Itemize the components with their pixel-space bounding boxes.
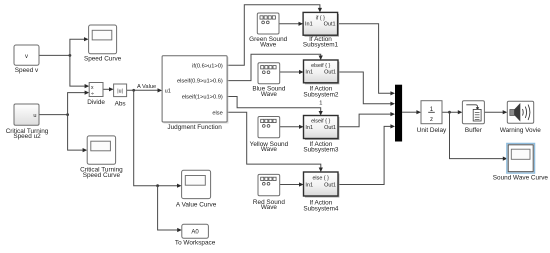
wire Blue Sound Wave to Subsystem2 In1 (280, 70, 304, 74)
block If Action Subsystem1 (303, 12, 339, 48)
svg-text:÷: ÷ (91, 92, 94, 98)
block Critical Turning Speed u2 (subsystem source) (6, 104, 49, 140)
svg-text:Wave: Wave (261, 146, 278, 153)
svg-text:Unit Delay: Unit Delay (417, 127, 447, 134)
wire Divide to Abs (103, 87, 114, 91)
block If Action Subsystem2 (303, 60, 339, 98)
svg-text:Out1: Out1 (324, 125, 336, 131)
svg-text:Speed Curve: Speed Curve (84, 55, 122, 62)
svg-text:else: else (212, 110, 222, 116)
wire junction down to Divide input x (70, 55, 89, 88)
svg-text:u: u (33, 113, 36, 119)
wire Green Sound Wave to Subsystem1 In1 (279, 22, 303, 26)
svg-text:Speed u2: Speed u2 (13, 133, 41, 140)
svg-text:Abs: Abs (115, 101, 126, 108)
svg-text:A Value Curve: A Value Curve (176, 202, 217, 209)
wire junction down to Critical Turning Speed Curve (68, 115, 88, 153)
wire Critical Turning Speed u2 to junction (39, 114, 68, 116)
block Mux (395, 85, 402, 142)
node junction unit delay out (448, 111, 451, 114)
svg-text:u1: u1 (165, 89, 171, 95)
svg-text:if { }: if { } (316, 15, 325, 21)
svg-text:A0: A0 (191, 230, 199, 236)
block Yellow Sound Wave (250, 117, 289, 154)
block Blue Sound Wave (252, 63, 285, 98)
svg-text:Subsystem1: Subsystem1 (303, 42, 339, 49)
svg-text:v: v (25, 54, 28, 60)
block If Action Subsystem3 (303, 116, 339, 154)
svg-text:Speed Curve: Speed Curve (83, 172, 121, 179)
block A Value Curve scope (176, 170, 217, 208)
wire Speed v to junction (39, 54, 70, 56)
block Critical Turning Speed Curve scope (80, 136, 123, 179)
block Warning Vovie (speaker) (500, 101, 541, 134)
block Speed v (constant source) (14, 45, 39, 74)
svg-text:Warning Vovie: Warning Vovie (500, 127, 541, 134)
wire branch down to Sound Wave Curve (450, 112, 508, 161)
wire branch down to To Workspace (158, 186, 182, 232)
block Sound Wave Curve scope (selected) (493, 143, 549, 181)
svg-text:Speed v: Speed v (15, 67, 39, 74)
node junction u2 (66, 113, 69, 116)
svg-text:elseif { }: elseif { } (311, 63, 330, 69)
svg-text:Subsystem2: Subsystem2 (303, 91, 339, 98)
svg-text:Buffer: Buffer (465, 127, 483, 134)
node junction speed v (69, 54, 72, 57)
svg-text:elseif(0.9>u1>0.6): elseif(0.9>u1>0.6) (177, 79, 223, 85)
wire A value branch down (134, 90, 182, 188)
svg-text:Wave: Wave (261, 204, 278, 211)
svg-text:elseif(1>u1>0.9): elseif(1>u1>0.9) (182, 95, 223, 101)
svg-text:Subsystem4: Subsystem4 (303, 205, 339, 212)
wire Yellow Sound Wave to Subsystem3 In1 (280, 125, 304, 129)
wire Buffer to Warning Vovie (484, 110, 507, 114)
wire Subsystem4 Out1 to Mux input4 (338, 124, 395, 184)
svg-text:To Workspace: To Workspace (175, 240, 216, 247)
block Buffer (462, 101, 484, 134)
svg-text:Wave: Wave (261, 91, 278, 98)
svg-text:Subsystem3: Subsystem3 (303, 147, 339, 154)
svg-text:else { }: else { } (312, 175, 329, 181)
svg-text:In1: In1 (305, 182, 313, 188)
wire Judgment output1 if to If Action Subsystem1 action port (227, 5, 322, 65)
svg-text:Wave: Wave (260, 42, 277, 49)
wire Red Sound Wave to Subsystem4 In1 (280, 182, 304, 186)
node junction A value curve (156, 184, 159, 187)
block Judgment Function (if-else) (162, 56, 228, 131)
block Unit Delay (417, 101, 447, 134)
block Red Sound Wave (253, 174, 285, 211)
wire Subsystem2 Out1 to Mux input2 (338, 72, 395, 106)
block Speed Curve scope (84, 25, 122, 62)
block To Workspace A0 (175, 224, 216, 246)
wire Judgment output4 else to If Action Subsystem4 action port (227, 112, 323, 172)
wire Subsystem3 Out1 to Mux input3 (338, 112, 395, 127)
svg-text:1: 1 (319, 101, 322, 107)
svg-text:Out1: Out1 (324, 182, 336, 188)
svg-text:Divide: Divide (87, 99, 105, 106)
wire Abs to Judgment Function u1, signal A Value (127, 84, 163, 92)
svg-text:A Value: A Value (137, 84, 156, 90)
block Abs (114, 84, 127, 108)
svg-text:Out1: Out1 (324, 22, 336, 28)
svg-text:Judgment Function: Judgment Function (167, 124, 222, 131)
wire Judgment output3 elseif to If Action Subsystem3 action port (227, 97, 323, 116)
node junction A value (132, 89, 135, 92)
block Green Sound Wave (249, 13, 287, 49)
svg-text:Out1: Out1 (324, 70, 336, 76)
svg-text:In1: In1 (305, 125, 313, 131)
wire Subsystem1 Out1 to Mux input1 (338, 24, 395, 96)
wire Mux to Unit Delay (402, 110, 421, 114)
block Divide (87, 83, 105, 106)
svg-text:|u|: |u| (117, 88, 123, 94)
svg-text:Sound Wave Curve: Sound Wave Curve (493, 175, 549, 182)
wire junction up to Speed Curve (70, 37, 89, 55)
svg-text:elseif { }: elseif { } (311, 118, 330, 124)
wire junction up to Divide input div (68, 91, 90, 115)
svg-text:In1: In1 (305, 70, 313, 76)
block If Action Subsystem4 (303, 172, 339, 212)
svg-text:In1: In1 (305, 22, 313, 28)
wire Unit Delay to Buffer (442, 110, 462, 114)
wire Judgment output2 elseif to If Action Subsystem2 action port (227, 54, 323, 80)
svg-text:if(0.6>u1>0): if(0.6>u1>0) (192, 63, 223, 69)
svg-text:z: z (430, 116, 433, 123)
